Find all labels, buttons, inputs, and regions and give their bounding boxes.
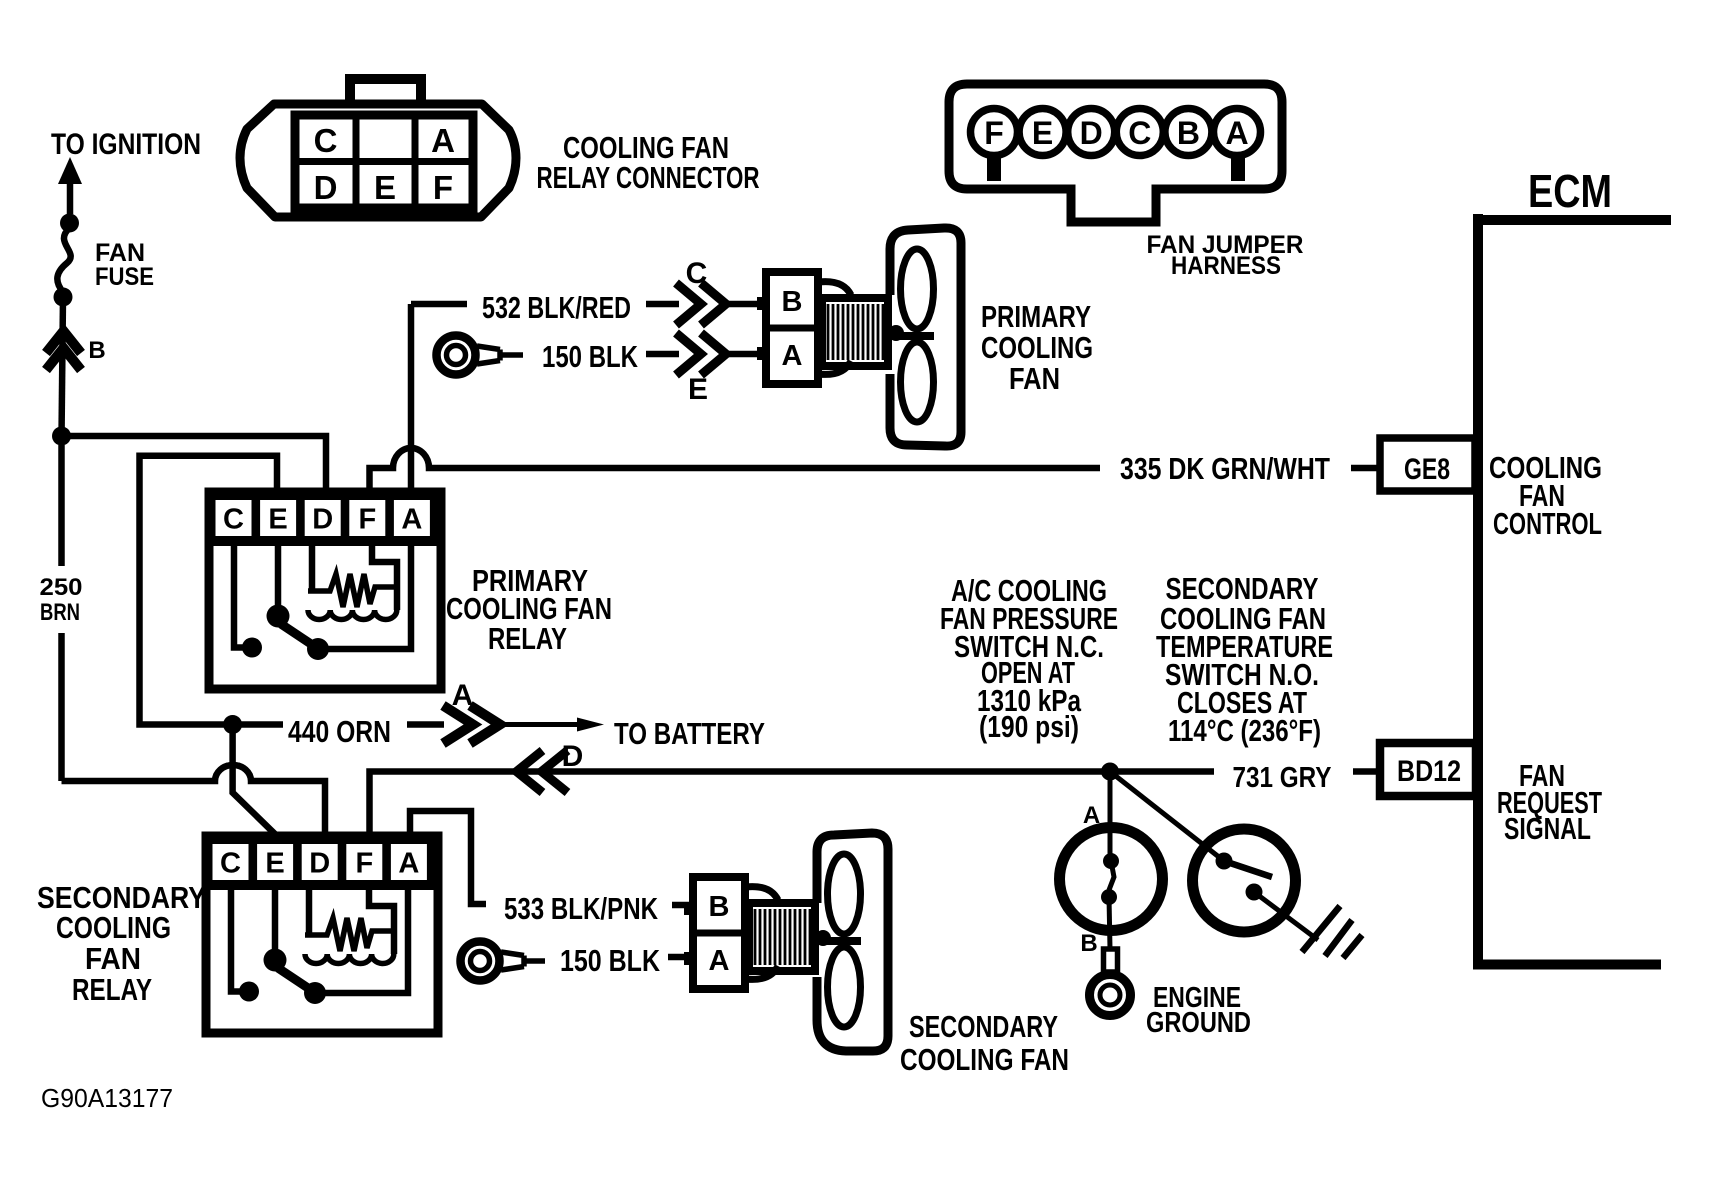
primary cooling fan: wire bundle connector to motor — [818, 282, 851, 375]
wire: 250 BRN to secondary relay pin D (hop over branch) — [62, 765, 326, 836]
svg-text:TO IGNITION: TO IGNITION — [51, 128, 201, 161]
connector: top tab — [350, 79, 421, 100]
secondary cooling fan relay: pin boxes C E D F A — [213, 844, 427, 880]
svg-text:COOLING FAN: COOLING FAN — [900, 1042, 1069, 1077]
primary cooling fan: fan hub and axle — [890, 332, 934, 340]
svg-text:GE8: GE8 — [1404, 453, 1450, 486]
ring terminal (primary ground eyelet) — [437, 336, 476, 375]
svg-text:A: A — [1083, 802, 1100, 829]
svg-text:D: D — [312, 504, 333, 536]
secondary cooling fan: fan hub and axle — [817, 937, 861, 945]
svg-text:F: F — [358, 504, 376, 536]
secondary cooling fan relay: internal wire from moving contact to pin A — [323, 881, 408, 993]
pressure switch contacts — [1103, 853, 1119, 869]
primary cooling fan relay: internal wire pin D to coil left — [309, 537, 316, 591]
svg-text:B: B — [1080, 930, 1097, 957]
primary cooling fan relay: internal wire from pin C to fixed contact — [234, 537, 243, 648]
secondary cooling fan relay: relay outer box — [206, 836, 438, 1033]
svg-text:533 BLK/PNK: 533 BLK/PNK — [504, 891, 658, 926]
primary cooling fan relay: pin band — [209, 492, 441, 546]
svg-text:SIGNAL: SIGNAL — [1504, 811, 1591, 846]
wire: temperature switch to chassis ground — [1254, 892, 1318, 940]
connector: jumper harness cavities F E D C B A — [971, 109, 1261, 156]
secondary cooling fan: fan shroud — [817, 833, 888, 1051]
svg-text:RELAY CONNECTOR: RELAY CONNECTOR — [537, 160, 760, 195]
svg-text:F: F — [433, 169, 453, 206]
svg-text:532 BLK/RED: 532 BLK/RED — [482, 290, 631, 325]
svg-text:D: D — [309, 848, 330, 880]
secondary cooling fan relay: internal wire pin D to coil left — [306, 881, 313, 935]
wire: 440 junction down to secondary relay pin E — [233, 730, 277, 836]
svg-text:114°C (236°F): 114°C (236°F) — [1168, 713, 1321, 748]
secondary cooling fan: connector divider — [693, 930, 745, 937]
svg-text:SECONDARY: SECONDARY — [909, 1009, 1058, 1044]
svg-text:D: D — [562, 740, 584, 773]
switch: secondary fan temperature switch circle — [1193, 829, 1296, 932]
ECM box — [1473, 214, 1671, 965]
connector GE8 — [1380, 438, 1475, 491]
svg-text:440 ORN: 440 ORN — [288, 714, 391, 749]
primary cooling fan: wire entry nubs — [757, 297, 767, 310]
primary cooling fan: motor body (hatched) — [822, 298, 888, 366]
wire: arrow TO BATTERY — [500, 722, 578, 727]
svg-text:HARNESS: HARNESS — [1171, 252, 1281, 280]
primary cooling fan: fan blade top — [901, 249, 934, 329]
svg-text:COOLING: COOLING — [56, 910, 171, 945]
wire: pressure switch pin B to engine ground — [1109, 897, 1110, 949]
secondary cooling fan relay: internal wire from pin E to switch pivot — [272, 881, 279, 952]
wire 440 ORN — [241, 721, 444, 728]
secondary cooling fan: motor body (hatched) — [749, 903, 815, 971]
svg-text:731 GRY: 731 GRY — [1233, 762, 1332, 794]
wire 150 BLK to primary fan pin A — [646, 351, 766, 358]
svg-text:F: F — [355, 848, 373, 880]
svg-text:B: B — [1177, 115, 1200, 151]
connector D (chevrons) — [517, 751, 568, 793]
primary cooling fan: fan shroud — [890, 228, 961, 446]
primary cooling fan relay: switch moving contact dot — [307, 638, 329, 660]
primary cooling fan relay: fixed contact dot — [242, 638, 262, 658]
secondary cooling fan: wire bundle connector to motor — [745, 887, 778, 980]
svg-text:B: B — [88, 337, 105, 364]
svg-text:D: D — [314, 169, 338, 206]
svg-text:B: B — [782, 286, 803, 318]
svg-text:A: A — [1225, 115, 1248, 151]
svg-text:PRIMARY: PRIMARY — [981, 299, 1091, 334]
wire 250 BRN (left vertical, label inline) — [58, 445, 65, 781]
svg-text:E: E — [688, 373, 708, 406]
node: 440 ORN junction dot — [223, 715, 242, 734]
svg-text:150 BLK: 150 BLK — [542, 339, 638, 374]
connector: cooling fan relay connector outline — [240, 104, 516, 217]
svg-text:A: A — [452, 679, 474, 712]
connector BD12 — [1380, 743, 1476, 796]
svg-text:E: E — [374, 169, 396, 206]
svg-text:B: B — [709, 891, 730, 923]
primary cooling fan: connector divider — [766, 325, 818, 332]
svg-text:RELAY: RELAY — [72, 972, 152, 1007]
svg-text:ECM: ECM — [1528, 165, 1612, 217]
fuse FAN FUSE (wavy symbol with end dots) — [60, 214, 79, 233]
secondary cooling fan relay: internal wire pin F to coil right — [369, 881, 394, 954]
svg-text:BRN: BRN — [40, 599, 80, 626]
svg-text:A: A — [401, 504, 422, 536]
primary cooling fan relay: coil zigzag (relay coil resistive element) — [308, 574, 397, 607]
svg-text:E: E — [265, 848, 284, 880]
wire 532 BLK/RED to primary fan pin B — [411, 301, 766, 308]
engine ground ring terminal — [1104, 949, 1118, 972]
primary cooling fan: fan motor connector B/A outer box — [766, 272, 818, 384]
wire 533 BLK/PNK from secondary relay pin A to fan pin B — [410, 811, 693, 905]
secondary cooling fan: wire entry nubs — [684, 902, 694, 915]
secondary cooling fan relay: switch blade — [278, 968, 311, 990]
connector pin letters C A D E F — [314, 122, 455, 206]
secondary cooling fan relay: pin band — [206, 836, 438, 890]
secondary cooling fan: fan blade top — [828, 854, 861, 934]
chassis ground hatch marks — [1302, 906, 1362, 958]
wire 150 BLK to secondary fan pin A — [668, 954, 693, 961]
connector B in-line (double chevron) — [46, 331, 81, 370]
svg-text:C: C — [314, 122, 338, 159]
connector: pin grid — [295, 115, 473, 208]
wire: junction to primary relay pin D — [62, 436, 327, 492]
svg-text:RELAY: RELAY — [488, 621, 567, 656]
secondary cooling fan: fan motor connector B/A outer box — [693, 877, 745, 989]
connector A (chevrons) — [443, 706, 500, 744]
svg-text:FUSE: FUSE — [95, 263, 154, 291]
switch: A/C pressure switch circle — [1060, 828, 1163, 931]
svg-text:E: E — [268, 504, 287, 536]
primary cooling fan relay: relay outer box — [209, 492, 441, 689]
primary cooling fan relay: coil scalloped bottom — [308, 610, 397, 620]
svg-text:C: C — [1128, 115, 1151, 151]
svg-text:FAN: FAN — [1009, 361, 1060, 396]
svg-text:G90A13177: G90A13177 — [41, 1083, 173, 1113]
secondary cooling fan relay: coil zigzag (relay coil resistive element) — [305, 918, 394, 951]
svg-text:335 DK GRN/WHT: 335 DK GRN/WHT — [1120, 451, 1330, 486]
svg-text:FAN: FAN — [85, 941, 141, 976]
svg-text:GROUND: GROUND — [1146, 1007, 1251, 1039]
wire: junction diagonal to temperature switch — [1110, 772, 1224, 862]
connector E (chevrons) — [676, 333, 726, 375]
wire: fuse to junction — [62, 297, 64, 437]
secondary cooling fan relay: switch pivot dot — [264, 949, 287, 972]
svg-text:TO BATTERY: TO BATTERY — [614, 716, 765, 751]
primary cooling fan relay: internal wire from pin E to switch pivot — [275, 537, 282, 608]
svg-text:(190 psi): (190 psi) — [979, 709, 1079, 744]
temperature switch contacts and blade — [1216, 853, 1233, 870]
secondary cooling fan relay: internal wire from pin C to fixed contact — [231, 881, 240, 992]
primary cooling fan relay: switch blade — [281, 624, 314, 646]
node: junction at ignition branch — [52, 427, 71, 446]
wire: primary relay pin E loop to 440 ORN junction — [140, 456, 278, 725]
svg-text:E: E — [1032, 115, 1053, 151]
connector: fan jumper harness outline — [949, 84, 1282, 222]
svg-text:C: C — [223, 504, 244, 536]
wire: 532 corner down to primary relay pin A (with hop crossing) — [408, 304, 415, 492]
svg-text:F: F — [984, 115, 1004, 151]
svg-text:A: A — [398, 848, 419, 880]
node: junction dot on 731 GRY — [1101, 763, 1119, 781]
wire 731 GRY from secondary relay pin F to BD12 — [370, 772, 1381, 837]
wire: junction to pressure switch pin A — [1108, 772, 1113, 856]
svg-text:D: D — [1080, 115, 1103, 151]
primary cooling fan relay: internal wire from moving contact to pin A — [326, 537, 411, 649]
wire: arrow to ignition — [67, 180, 74, 214]
primary cooling fan relay: pin boxes C E D F A — [216, 500, 430, 536]
svg-text:COOLING: COOLING — [981, 330, 1093, 365]
connector: latch slots — [987, 156, 1001, 181]
svg-text:C: C — [220, 848, 241, 880]
svg-text:A: A — [709, 945, 730, 977]
svg-text:C: C — [686, 257, 708, 290]
ring terminal (secondary ground eyelet) — [461, 942, 500, 981]
svg-text:A: A — [782, 340, 803, 372]
svg-text:BD12: BD12 — [1397, 755, 1461, 788]
svg-text:A: A — [431, 122, 455, 159]
connector C (chevrons) — [676, 283, 726, 325]
secondary cooling fan: fan blade bottom — [828, 947, 861, 1027]
primary cooling fan relay: switch pivot dot — [267, 605, 290, 628]
primary cooling fan relay: internal wire pin F to coil right — [372, 537, 397, 610]
svg-text:CONTROL: CONTROL — [1493, 506, 1602, 541]
svg-text:150 BLK: 150 BLK — [560, 943, 660, 978]
secondary cooling fan relay: switch moving contact dot — [304, 982, 326, 1004]
primary cooling fan: fan blade bottom — [901, 342, 934, 422]
svg-text:250: 250 — [40, 574, 83, 601]
wire 335 DK GRN/WHT from relay pin F to GE8 (hop over pin-A wire) — [370, 448, 1381, 492]
secondary cooling fan relay: coil scalloped bottom — [305, 954, 394, 964]
secondary cooling fan relay: fixed contact dot — [239, 982, 259, 1002]
